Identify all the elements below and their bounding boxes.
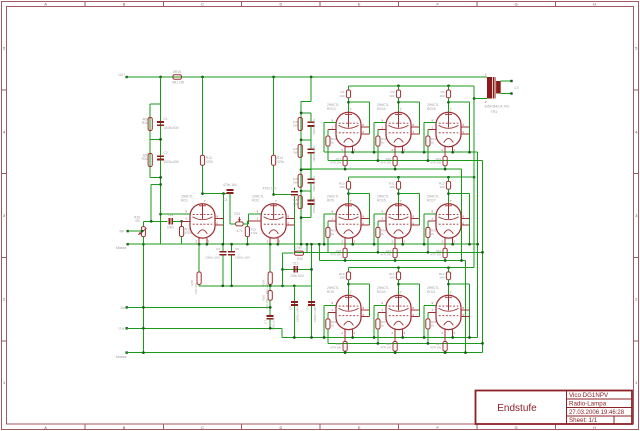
junction driver2 cathode stub — [276, 243, 279, 246]
tube RO2 cathode arc — [269, 230, 279, 234]
wire grid resistor to grid bus col3 row1 — [427, 146, 429, 161]
junction cathode bus col3 row1 — [451, 151, 454, 154]
wire cathode-res bus drop 2 — [465, 261, 467, 353]
resistor driver2 plate 470k — [272, 155, 276, 165]
junction on B+ rail — [272, 76, 275, 79]
resistor chain R1 — [298, 118, 302, 131]
wire plate stub bottom col2 row1 — [398, 98, 400, 113]
tube RO10 grid g2 dashed — [389, 315, 409, 317]
tube RO17 cathode arc — [444, 230, 454, 234]
wire cathode resistor to ground bus col1 row1 — [344, 166, 346, 169]
svg-text:2: 2 — [635, 298, 637, 302]
svg-text:C1: C1 — [164, 117, 168, 121]
svg-text:27.03.2006 19:46:28: 27.03.2006 19:46:28 — [569, 410, 625, 416]
junction grid bus col3 row2 — [427, 251, 430, 254]
svg-text:1000u 63V: 1000u 63V — [164, 160, 180, 164]
wire g1 to grid resistor col1 row1 — [327, 129, 329, 136]
junction left cluster bottom — [159, 176, 162, 179]
pin cathode stub col3 row2 — [452, 238, 454, 244]
tube RO16 envelope — [386, 204, 411, 238]
svg-text:1000u 100V: 1000u 100V — [312, 119, 316, 135]
tube RO9 getter mark — [345, 296, 352, 298]
junction plate bus row3 — [397, 266, 400, 269]
svg-text:1000u 100V: 1000u 100V — [312, 197, 316, 213]
junction cathode bus col1 row1 — [351, 151, 354, 154]
svg-text:470n 1kV: 470n 1kV — [223, 183, 238, 187]
wire TR1 primary pin2 — [474, 98, 487, 100]
pin upper-left col3 row3 — [424, 304, 436, 306]
wire screen vertical col1 row1 — [369, 102, 371, 134]
junction C7 bottom — [269, 327, 272, 330]
junction chain rung 2 — [300, 138, 303, 141]
pin driver1 upper-left — [161, 213, 190, 215]
svg-text:R21: R21 — [235, 212, 241, 216]
tube RO16 pin numbers — [382, 199, 415, 244]
tube RO9 envelope — [336, 295, 361, 329]
transformer TR1 core — [492, 77, 494, 99]
junction C4 — [221, 243, 224, 246]
pin U-a — [126, 327, 128, 329]
tube RO1 anode curve — [193, 217, 213, 220]
wire grid resistor to grid bus col2 row3 — [377, 329, 379, 343]
junction cathode-res bus row2 — [460, 259, 463, 262]
junction grid leak — [180, 220, 183, 223]
wire plate stub bottom col1 row3 — [348, 280, 350, 296]
junction C12 left — [281, 268, 284, 271]
svg-text:100n: 100n — [167, 226, 174, 230]
pin g2 col1 row2 — [361, 217, 370, 219]
wire chain rung 1 — [301, 112, 311, 114]
resistor grid stopper col1 row1 — [326, 136, 330, 146]
junction ground bus col1 row3 — [344, 351, 347, 354]
tube RO13 grid g1 dashed — [339, 122, 359, 124]
svg-text:Masse: Masse — [116, 355, 127, 359]
junction plate node col3 row1 — [447, 101, 450, 104]
junction plate node col1 row2 — [347, 192, 350, 195]
frame row tick left 3 — [2, 256, 7, 258]
tube RO17 pin numbers — [432, 199, 465, 244]
tube RO13 envelope — [336, 112, 361, 146]
capacitor C6 1000u 16V — [228, 252, 235, 255]
tube RO17 anode curve — [439, 217, 459, 220]
wire driver1 plate feed — [202, 77, 204, 155]
svg-text:47R 2W: 47R 2W — [380, 252, 391, 256]
wire upper-left drop col3 row2 — [423, 214, 425, 244]
junction screen-to-cathode col3 row3 — [468, 336, 471, 339]
svg-text:100: 100 — [339, 276, 344, 280]
svg-text:47R 2W: 47R 2W — [380, 346, 391, 350]
tube RO9 cathode arc — [344, 321, 354, 325]
svg-text:Radio-Lampa: Radio-Lampa — [569, 401, 607, 408]
wire plate resistor stub top col2 row3 — [398, 268, 400, 272]
wire cap to driver1 grid — [172, 220, 190, 222]
wire plate bus row2 — [349, 176, 475, 178]
wire C4 leg — [222, 244, 224, 251]
tube RO11 pin numbers — [432, 290, 465, 335]
tube RO11 anode lead — [448, 295, 450, 310]
junction driver1 cathode — [198, 243, 201, 246]
svg-text:0R1 1W: 0R1 1W — [172, 81, 185, 85]
svg-text:U2+: U2+ — [119, 73, 126, 77]
svg-text:C9: C9 — [306, 306, 310, 310]
wire chain left leg — [300, 102, 302, 245]
resistor R3 plate — [446, 90, 450, 98]
tube RO9 grid g2 dashed — [339, 315, 359, 317]
pin NF — [127, 230, 129, 232]
tube RO10 grid g1 dashed — [389, 305, 409, 307]
wire driver2 grid leak — [246, 221, 248, 227]
title block row divider 2 — [567, 407, 633, 409]
pin g1 col1 row3 — [328, 311, 336, 313]
resistor R12 plate — [446, 272, 450, 280]
pin g1 col1 row2 — [328, 220, 336, 222]
svg-text:C4: C4 — [216, 247, 220, 251]
junction plate node col1 row3 — [347, 283, 350, 286]
wire cathode resistor to ground bus col3 row1 — [444, 166, 446, 169]
pin driver1 cathode lead — [198, 238, 200, 244]
junction R24 right leg — [306, 243, 309, 246]
wire plate stub bottom col2 row2 — [398, 189, 400, 204]
tube RO9 anode lead — [348, 295, 350, 310]
svg-text:390 4W: 390 4W — [265, 299, 269, 310]
resistor grid stopper col3 row2 — [426, 227, 430, 237]
wire driver2 plate stub — [273, 165, 275, 194]
svg-text:NF: NF — [120, 229, 126, 233]
pin g1 col2 row2 — [378, 220, 386, 222]
tube RO2 getter mark — [270, 205, 277, 207]
wire chain rung 2 — [301, 139, 311, 141]
resistor R21 cathode — [393, 248, 397, 258]
junction plate node col2 row3 — [397, 283, 400, 286]
svg-text:A: A — [44, 2, 47, 6]
resistor grid stopper col2 row1 — [376, 136, 380, 146]
resistor R10 plate — [346, 181, 350, 189]
pin g2 col1 row3 — [361, 309, 370, 311]
pin cathode lead col1 row1 — [344, 147, 346, 157]
tube RO5 grid g2 dashed — [339, 223, 359, 225]
svg-text:5W: 5W — [293, 151, 298, 155]
junction ground bus col2 row1 — [394, 168, 397, 171]
wire grid resistor to grid bus col2 row1 — [377, 146, 379, 161]
svg-text:C6: C6 — [235, 247, 239, 251]
pin g1 col3 row1 — [428, 128, 436, 130]
junction cathode bus col1 row2 — [351, 243, 354, 246]
svg-text:2: 2 — [3, 298, 5, 302]
junction cathode bus col2 row1 — [401, 151, 404, 154]
junction chain rung 1 — [300, 112, 303, 115]
wire grid bus interconnect right — [482, 161, 484, 353]
pin g3 col2 row1 — [411, 133, 420, 135]
tube RO10 anode curve — [389, 308, 409, 311]
tube RO17 envelope — [436, 204, 461, 238]
svg-text:D: D — [280, 2, 283, 6]
wire screen vertical col2 row3 — [419, 284, 421, 317]
pin cathode lead col3 row2 — [444, 238, 446, 248]
tube RO15 envelope — [436, 112, 461, 146]
wire grid resistor to grid bus col1 row2 — [327, 238, 329, 253]
resistor R12 plate — [446, 181, 450, 189]
wire cathode resistor to ground bus col1 row2 — [344, 258, 346, 261]
pin upper-left col2 row2 — [374, 213, 386, 215]
pin g2 col2 row3 — [411, 309, 420, 311]
tube RO5 getter mark — [345, 205, 352, 207]
pin g2 col1 row1 — [361, 126, 370, 128]
pin g3 col1 row3 — [361, 316, 370, 318]
svg-text:470k: 470k — [277, 160, 284, 164]
svg-text:470R: 470R — [294, 246, 302, 250]
wire U-a riser to cathode bus row3 — [281, 328, 283, 337]
resistor R28 driver2 cathode — [268, 272, 272, 284]
svg-text:1k: 1k — [331, 141, 335, 145]
junction cathode bus col3 row2 — [451, 243, 454, 246]
resistor R17 cathode — [343, 156, 347, 166]
resistor R1k lower (left cluster) — [148, 154, 152, 167]
tube RO14 getter mark — [395, 113, 402, 115]
resistor grid stopper col2 row3 — [376, 319, 380, 329]
svg-text:1k: 1k — [381, 324, 385, 328]
junction 2a node — [269, 306, 272, 309]
trim pot R21 — [236, 222, 244, 226]
svg-text:Endstufe: Endstufe — [497, 403, 537, 414]
svg-text:0R15: 0R15 — [173, 70, 181, 74]
wire plate resistor stub top col3 row2 — [448, 177, 450, 181]
wire plate tie to screen col3 row2 — [449, 193, 470, 195]
capacitor C7 100u — [267, 316, 274, 319]
junction driver2 grid leak — [246, 243, 249, 246]
wire driver2 plate tie — [274, 194, 295, 196]
capacitor C2 1000u (left cluster lower) — [157, 156, 164, 159]
pin LS- — [510, 92, 512, 94]
svg-text:470n 1kV: 470n 1kV — [263, 186, 278, 190]
svg-text:47k: 47k — [135, 219, 141, 223]
svg-text:Sheet: 1/1: Sheet: 1/1 — [569, 417, 598, 424]
svg-text:1000u 16V: 1000u 16V — [235, 256, 251, 260]
wire B+ rail — [127, 76, 487, 78]
junction ground bus col3 row2 — [444, 259, 447, 262]
pin driver2 lower-left — [247, 220, 261, 222]
svg-text:RO10: RO10 — [377, 290, 386, 294]
junction pot-rail — [142, 243, 145, 246]
svg-text:100: 100 — [389, 94, 394, 98]
pin g1 col1 row1 — [328, 128, 336, 130]
pin driver1 g1 — [182, 220, 190, 222]
junction upper-left drop col3 row2 — [423, 243, 426, 246]
svg-text:G: G — [515, 2, 518, 6]
wire cathode resistor to ground bus col3 row2 — [444, 258, 446, 261]
svg-text:4: 4 — [3, 130, 5, 134]
wire chain cap leg 3 — [310, 170, 312, 179]
tube RO16 anode curve — [389, 217, 409, 220]
svg-text:C3: C3 — [223, 198, 227, 202]
junction plate node col1 row1 — [347, 101, 350, 104]
wire input feed vertical — [150, 185, 152, 222]
tube RO17 grid g1 dashed — [439, 214, 459, 216]
resistor grid stopper col3 row3 — [426, 319, 430, 329]
pin g2 col3 row2 — [461, 217, 470, 219]
junction chain rung 3 — [300, 168, 303, 171]
tube RO1 anode lead — [202, 204, 204, 219]
frame column tick bottom 3 — [241, 424, 243, 430]
wire plate bus row1 — [349, 85, 475, 87]
tube RO1 grid g1 dashed — [193, 214, 213, 216]
wire upper-left drop col3 row3 — [423, 305, 425, 337]
wire cathode bus interconnect right — [477, 152, 479, 337]
wire upper-left drop col1 row2 — [323, 214, 325, 244]
pin cathode lead col2 row2 — [394, 238, 396, 248]
svg-text:1000u 100V: 1000u 100V — [312, 176, 316, 192]
wire plate resistor stub top col3 row3 — [448, 268, 450, 272]
junction C12 right top — [310, 243, 313, 246]
wire upper-left drop col2 row3 — [373, 305, 375, 337]
tube RO13 getter mark — [345, 113, 352, 115]
junction driver1 plate — [201, 192, 204, 195]
resistor R11 plate — [396, 181, 400, 189]
resistor grid stopper col2 row2 — [376, 227, 380, 237]
junction upper-left drop col3 row1 — [423, 151, 426, 154]
frame column tick bottom 2 — [162, 424, 164, 430]
svg-text:47R 2W: 47R 2W — [330, 160, 341, 164]
resistor chain R4 — [298, 196, 302, 209]
svg-text:470k: 470k — [206, 160, 213, 164]
wire plate resistor stub top col3 row1 — [448, 86, 450, 90]
tube RO2 envelope — [261, 204, 286, 238]
wire R24 left leg — [282, 253, 284, 286]
capacitor C12 100u — [294, 266, 297, 273]
frame column tick top 2 — [162, 2, 164, 7]
title block row divider 1 — [567, 398, 633, 400]
wire driver2 plate feed — [273, 77, 275, 155]
capacitor C9 1000u 100V — [308, 302, 315, 305]
pin g1 col3 row2 — [428, 220, 436, 222]
wire left cluster bottom rung — [150, 176, 160, 178]
transformer TR1 primary winding — [487, 77, 492, 99]
wire screen vertical col3 row3 — [469, 284, 471, 337]
wire left cluster resistor leg — [149, 104, 151, 178]
wire plate stub bottom col3 row3 — [448, 280, 450, 296]
resistor R25 driver1 cathode — [197, 272, 201, 284]
junction ground bus col2 row2 — [394, 259, 397, 262]
svg-text:100: 100 — [339, 185, 344, 189]
svg-text:1k: 1k — [431, 141, 435, 145]
pin upper-left col1 row3 — [324, 304, 336, 306]
wire driver1 plate tie — [203, 193, 231, 195]
svg-text:1000u 100V: 1000u 100V — [313, 306, 317, 322]
tube RO17 anode lead — [448, 204, 450, 219]
tube RO5 anode curve — [339, 217, 359, 220]
wire left cluster vertical — [160, 77, 162, 244]
tube RO11 cathode arc — [444, 321, 454, 325]
pin driver2 g2 — [286, 217, 295, 219]
svg-text:C5: C5 — [298, 197, 302, 201]
tube RO15 grid g2 dashed — [439, 132, 459, 134]
wire plate tie to screen col3 row3 — [449, 283, 470, 285]
wire plate stub bottom col3 row1 — [448, 98, 450, 113]
tube RO14 grid g2 dashed — [389, 132, 409, 134]
svg-text:C2: C2 — [164, 151, 168, 155]
resistor R18 cathode — [343, 248, 347, 258]
svg-text:47R 2W: 47R 2W — [430, 346, 441, 350]
wire plate resistor stub top col2 row1 — [398, 86, 400, 90]
wire chain last rung — [301, 217, 311, 219]
tube RO14 envelope — [386, 112, 411, 146]
wire bus3 row2 left leg — [318, 244, 320, 260]
junction pot-rail — [142, 327, 145, 330]
junction transformer primary feed — [473, 97, 476, 100]
tube RO2 anode curve — [264, 217, 284, 220]
junction cathode bus col3 row3 — [451, 336, 454, 339]
svg-text:1000u 63V: 1000u 63V — [164, 126, 180, 130]
junction driver1 cathode stub — [206, 243, 209, 246]
tube RO2 grid g2 dashed — [264, 223, 284, 225]
wire screen vertical col3 row2 — [469, 194, 471, 245]
pin cathode lead col3 row1 — [444, 147, 446, 157]
junction plate bus row2 — [397, 176, 400, 179]
wire g1 to grid resistor col3 row1 — [427, 129, 429, 136]
tube RO14 anode curve — [389, 125, 409, 128]
svg-text:C: C — [201, 2, 204, 6]
svg-text:47R 2W: 47R 2W — [330, 252, 341, 256]
wire screen vertical col1 row3 — [369, 284, 371, 317]
wire screen vertical col2 row1 — [419, 102, 421, 134]
tube RO1 getter mark — [199, 205, 206, 207]
tube RO5 envelope — [336, 204, 361, 238]
wire C3 to trim pot — [229, 194, 231, 224]
pin g3 col1 row1 — [361, 133, 370, 135]
pin cathode lead col2 row3 — [394, 330, 396, 342]
junction grid bus col3 row1 — [427, 159, 430, 162]
pin cathode stub col1 row2 — [352, 238, 354, 244]
wire grid bus row3 — [328, 342, 483, 344]
tube RO1 cathode arc — [198, 230, 208, 234]
wire upper-left drop col2 row2 — [373, 214, 375, 244]
svg-text:E: E — [358, 2, 361, 6]
pin cathode lead col3 row3 — [444, 330, 446, 342]
wire chain rung 4 — [301, 190, 311, 192]
tube RO16 getter mark — [395, 205, 402, 207]
wire NF input — [128, 230, 142, 232]
title block row divider 3 — [567, 415, 633, 417]
resistor R13 plate — [396, 272, 400, 280]
frame row tick right 2 — [634, 173, 639, 175]
capacitor chain C3 — [308, 179, 315, 183]
frame column tick bottom 5 — [398, 424, 400, 430]
resistor R30 390 4W — [269, 286, 271, 291]
pin g1 col2 row3 — [378, 311, 386, 313]
wire g1 to grid resistor col2 row2 — [377, 221, 379, 228]
junction driver2 cathode — [269, 243, 272, 246]
tube RO15 cathode arc — [444, 138, 454, 142]
frame column tick bottom 1 — [84, 424, 86, 430]
pin driver2 cathode lead — [269, 238, 271, 244]
frame column tick top 5 — [398, 2, 400, 7]
wire TR1 secondary top — [501, 80, 512, 82]
junction plate node col2 row1 — [397, 101, 400, 104]
svg-text:3: 3 — [635, 214, 637, 218]
wire pot bottom rail vertical — [142, 237, 144, 353]
wire TR1 secondary bottom — [501, 93, 512, 95]
junction C9 bottom — [310, 336, 313, 339]
wire chain cap leg 2 — [310, 140, 312, 149]
resistor R22 driver2 grid leak — [245, 227, 249, 237]
wire driver2 cathode resistor leg — [269, 244, 271, 272]
pin g3 col2 row3 — [411, 316, 420, 318]
wire upper-left drop col3 row1 — [423, 122, 425, 152]
tube RO1 grid g2 dashed — [193, 223, 213, 225]
wire plate tie to screen col1 row2 — [349, 193, 370, 195]
wire R30 to 2a node — [269, 300, 271, 315]
pin upper-left col1 row2 — [324, 213, 336, 215]
capacitor chain C4 — [308, 200, 315, 204]
